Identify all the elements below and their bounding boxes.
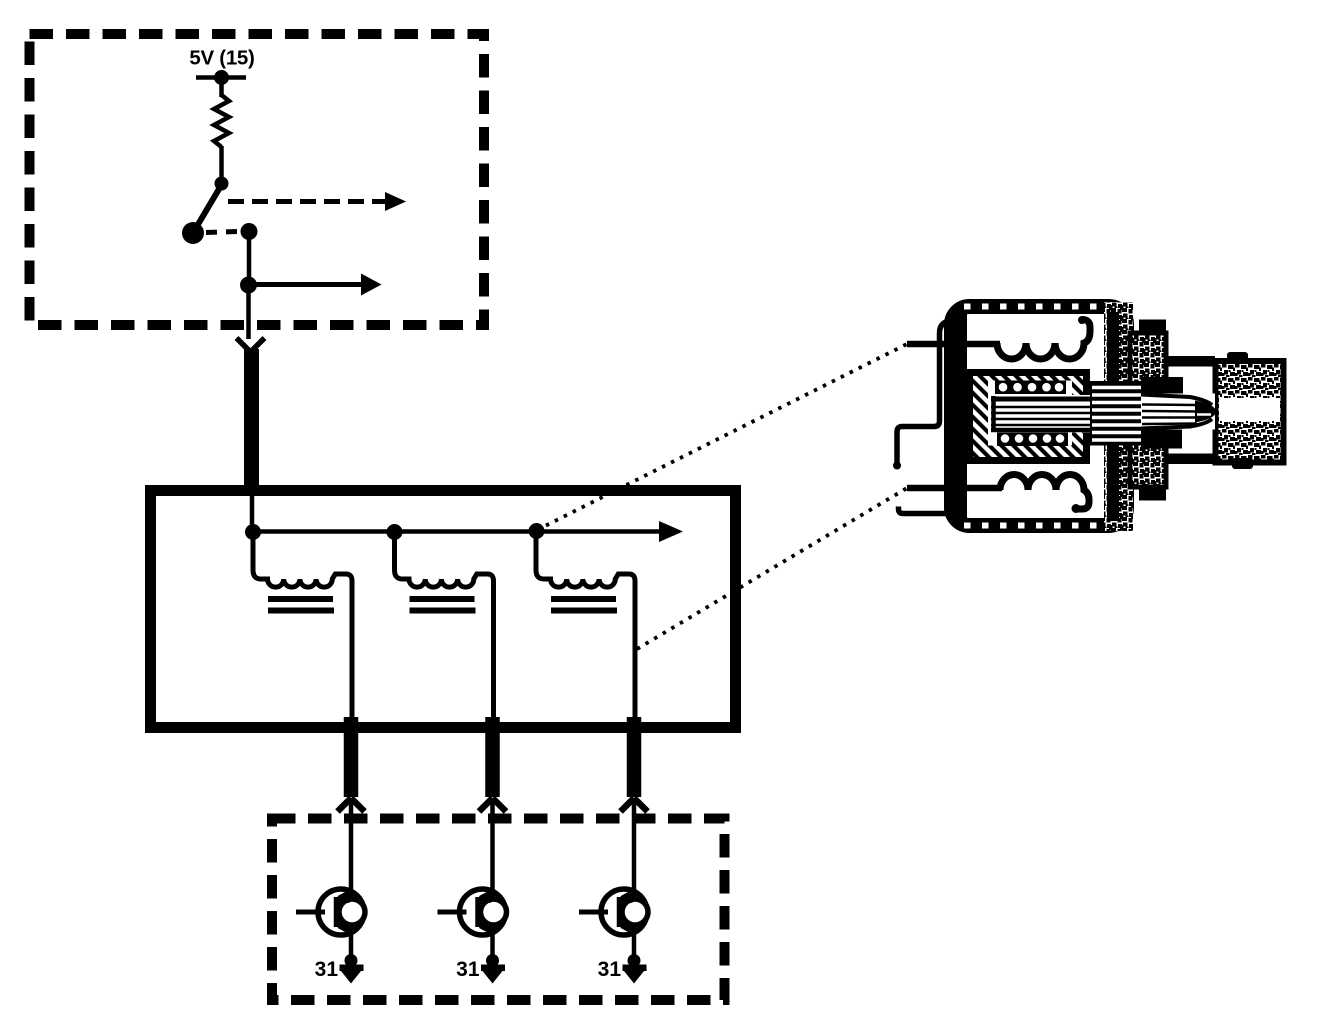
svg-text:31: 31 [315, 958, 339, 981]
svg-text:5V (15): 5V (15) [189, 47, 254, 70]
